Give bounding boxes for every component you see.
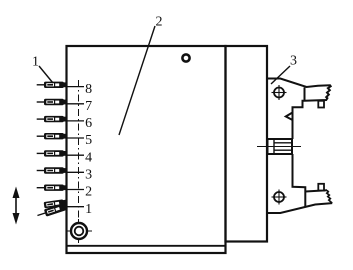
svg-text:6: 6	[85, 116, 92, 131]
svg-text:5: 5	[85, 133, 92, 148]
svg-text:2: 2	[85, 185, 92, 200]
svg-text:3: 3	[290, 54, 297, 69]
svg-text:8: 8	[85, 82, 92, 97]
svg-text:2: 2	[156, 15, 163, 30]
svg-text:4: 4	[85, 150, 92, 165]
svg-text:7: 7	[85, 99, 92, 114]
svg-text:1: 1	[32, 55, 39, 70]
svg-text:1: 1	[85, 202, 92, 217]
svg-text:3: 3	[85, 168, 92, 183]
